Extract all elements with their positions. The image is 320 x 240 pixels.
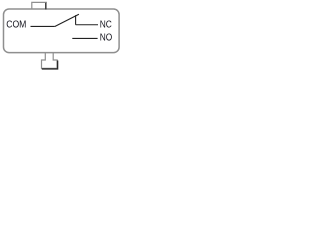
NO wire bbox=[72, 37, 97, 39]
switch body outline bbox=[4, 9, 120, 53]
mounting foot shadow bbox=[42, 61, 58, 69]
svg-text:COM: COM bbox=[6, 19, 26, 30]
svg-text:NO: NO bbox=[100, 32, 113, 43]
plunger button shadow edge bbox=[45, 3, 47, 10]
mounting foot bbox=[42, 53, 58, 69]
NC wire bbox=[76, 24, 98, 26]
plunger button bbox=[32, 2, 47, 8]
svg-text:NC: NC bbox=[100, 19, 112, 30]
COM wire bbox=[31, 25, 55, 27]
lever bbox=[55, 14, 79, 26]
NC contact bar bbox=[75, 15, 77, 25]
